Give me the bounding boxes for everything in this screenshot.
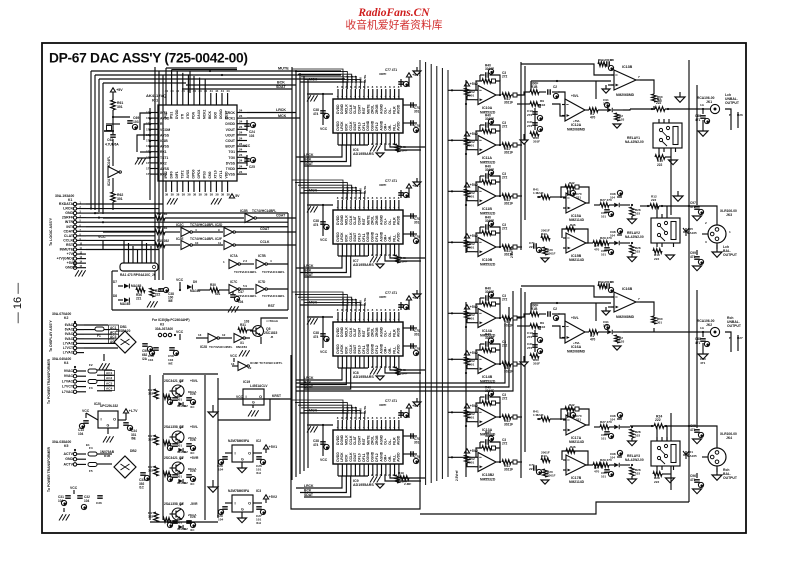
svg-text:AC1: AC1 — [106, 371, 112, 375]
svg-text:R40: R40 — [485, 216, 491, 220]
svg-text:222: 222 — [651, 198, 656, 202]
svg-text:20PF: 20PF — [400, 372, 408, 376]
svg-text:AVDD: AVDD — [397, 121, 401, 131]
svg-text:RA1 473 RPG4A10C_20: RA1 473 RPG4A10C_20 — [120, 273, 156, 277]
svg-text:AD1955ARS: AD1955ARS — [353, 483, 374, 487]
svg-text:103: 103 — [619, 118, 624, 122]
bus wires above U1 — [166, 68, 237, 93]
capacitor C69 — [112, 110, 139, 130]
svg-text:F3: F3 — [89, 386, 93, 390]
DAC IC6 body — [333, 99, 403, 133]
svg-text:MCK: MCK — [278, 114, 287, 118]
inverter IC7B — [234, 254, 288, 274]
resistor array RA1 — [120, 263, 158, 277]
base resistor Q2 — [148, 465, 158, 476]
svg-text:O: O — [248, 451, 251, 456]
svg-text:IC14B: IC14B — [482, 375, 493, 379]
op-amp IC14B — [475, 355, 496, 384]
svg-text:VCC: VCC — [70, 486, 78, 490]
svg-text:272: 272 — [527, 346, 532, 350]
svg-text:IC10A: IC10A — [482, 106, 493, 110]
connector K1 To LOGIC ASSY — [49, 202, 86, 270]
svg-text:VCC: VCC — [320, 350, 328, 354]
svg-text:L4931ACLV: L4931ACLV — [250, 384, 268, 388]
inverter IC2A — [107, 156, 121, 186]
svg-text:C62: C62 — [107, 138, 113, 142]
svg-text:+5V2: +5V2 — [269, 495, 278, 499]
svg-text:CDAT: CDAT — [276, 214, 286, 218]
svg-text:R49: R49 — [398, 471, 404, 475]
+5V arrow below U1 — [229, 194, 240, 198]
output network IC12A — [585, 98, 624, 128]
svg-text:OPD1: OPD1 — [197, 169, 201, 178]
svg-text:RadioFans.CN: RadioFans.CN — [357, 7, 430, 19]
gnd tri power 2 — [208, 440, 218, 492]
supply rail op-amp column Rch — [465, 302, 467, 477]
svg-text:300F: 300F — [531, 304, 538, 308]
resistor R1 222 at relay1 — [630, 98, 700, 112]
svg-text:DGND: DGND — [219, 109, 223, 119]
svg-text:R40: R40 — [485, 64, 491, 68]
svg-text:272: 272 — [502, 176, 508, 180]
control bus into DAC IC9 — [292, 400, 367, 420]
svg-text:382: 382 — [148, 469, 153, 473]
svg-text:MUTE: MUTE — [363, 75, 367, 83]
svg-text:DZ: DZ — [184, 481, 188, 485]
svg-text:L7VAC: L7VAC — [63, 351, 74, 355]
supply resistor at IC14B — [464, 351, 478, 369]
svg-text:38: 38 — [227, 193, 231, 197]
AC1-AC4 labels — [109, 325, 119, 344]
svg-text:NA-42W2-00: NA-42W2-00 — [625, 140, 644, 144]
svg-text:SDAT: SDAT — [276, 85, 286, 89]
svg-text:24: 24 — [239, 108, 243, 112]
svg-text:470: 470 — [590, 116, 596, 120]
relay RELAY4 Rch bal — [625, 437, 680, 470]
svg-text:9VAC: 9VAC — [64, 374, 74, 378]
capacitor C96 — [690, 473, 704, 494]
svg-text:LRCK: LRCK — [304, 153, 314, 157]
transistor Q3 — [164, 425, 198, 443]
resistor R25 at relay4 — [630, 415, 689, 442]
right inner vertical wire — [696, 85, 698, 423]
top-left bus verticals — [91, 67, 345, 280]
diode D8 — [113, 294, 131, 306]
svg-text:IC7B: IC7B — [258, 254, 266, 258]
svg-text:NM5532D: NM5532D — [480, 263, 496, 267]
svg-text:R9 392: R9 392 — [157, 226, 168, 230]
op-amp IC13B servo — [602, 65, 640, 97]
bypass caps right of DAC IC8 — [403, 325, 420, 355]
svg-text:101: 101 — [601, 215, 606, 219]
VCC at RA1 — [98, 235, 106, 250]
svg-text:OUTPUT: OUTPUT — [723, 476, 738, 480]
RA1 top wires — [124, 240, 151, 263]
svg-text:VDD: VDD — [225, 171, 229, 179]
servo integration rail Rch — [531, 302, 611, 321]
resistor R62 — [111, 178, 124, 210]
svg-text:470: 470 — [594, 470, 599, 474]
svg-text:DVDD: DVDD — [225, 122, 235, 126]
svg-text:CCLK: CCLK — [260, 240, 270, 244]
svg-text:+5VL: +5VL — [573, 341, 580, 345]
+5V supply at DAC IC6 — [379, 67, 421, 87]
svg-text:MA165: MA165 — [120, 302, 131, 306]
svg-text:AVSS: AVSS — [160, 133, 170, 137]
output resistor IC11B — [502, 194, 522, 206]
svg-text:221: 221 — [529, 245, 534, 249]
DAC IC9 top pins — [337, 416, 400, 430]
svg-text:TC74VHC14BFL: TC74VHC14BFL — [209, 345, 233, 349]
diode D5 MA165 — [683, 227, 697, 236]
svg-text:9VAC: 9VAC — [65, 337, 74, 341]
svg-text:471: 471 — [695, 341, 701, 345]
op-amp IC16B servo — [602, 287, 640, 319]
svg-text:BCK: BCK — [304, 489, 312, 493]
svg-text:VCC: VCC — [98, 235, 106, 239]
frame wires at JK1 — [725, 109, 743, 130]
svg-text:Q4: Q4 — [179, 502, 184, 506]
relay RELAY2 — [625, 214, 680, 247]
svg-text:272: 272 — [527, 113, 532, 117]
DAC IC7 designator — [353, 259, 374, 267]
op-amp IC17A — [533, 403, 589, 444]
divider network Q3 — [163, 438, 196, 455]
svg-text:IC12A: IC12A — [571, 123, 582, 127]
feedback network IC14B — [476, 333, 508, 366]
svg-text:LRCK: LRCK — [304, 484, 314, 488]
svg-text:G: G — [252, 401, 255, 405]
output resistor IC14B — [502, 362, 522, 374]
crystal X2 — [104, 124, 120, 131]
svg-text:AVSS: AVSS — [160, 145, 170, 149]
svg-text:24: 24 — [239, 164, 243, 168]
relay RELAY1 — [625, 119, 682, 152]
inverter IC28 — [196, 333, 233, 349]
svg-text:474: 474 — [313, 335, 319, 339]
svg-text:TC74VHC14BFL IC2D: TC74VHC14BFL IC2D — [190, 223, 223, 227]
svg-text:/1H: /1H — [256, 521, 262, 525]
VCC arrow mid — [176, 278, 184, 291]
servo output wire IC13B — [640, 80, 663, 110]
svg-text:R24: R24 — [656, 415, 662, 419]
op-amp IC13A — [475, 408, 496, 437]
output network Lch bal row 1 — [594, 228, 641, 261]
svg-text:44: 44 — [165, 89, 169, 93]
svg-text:C28: C28 — [190, 438, 196, 442]
svg-text:IC2: IC2 — [256, 439, 261, 443]
svg-text:AVDD: AVDD — [397, 104, 401, 114]
svg-text:R43: R43 — [541, 232, 547, 236]
output network Rch bal row 1 — [594, 450, 641, 483]
capacitor C33 — [139, 473, 150, 490]
svg-text:IC11B: IC11B — [482, 207, 492, 211]
svg-text:301: 301 — [117, 105, 123, 109]
svg-text:103: 103 — [619, 340, 624, 344]
svg-text:3021F: 3021F — [504, 202, 513, 206]
svg-text:103: 103 — [635, 434, 640, 438]
svg-text:VCC: VCC — [230, 354, 238, 358]
gnd tri above relay2 — [673, 191, 683, 201]
resistor R61 — [111, 100, 124, 110]
svg-text:TG1: TG1 — [228, 150, 235, 154]
IC U1 right pins — [237, 108, 247, 174]
svg-text:/6E: /6E — [131, 437, 136, 441]
svg-text:474: 474 — [313, 112, 319, 116]
fuses F4 F5 — [86, 443, 97, 473]
svg-text:G: G — [107, 424, 110, 428]
svg-text:5V: 5V — [235, 194, 240, 198]
svg-text:104: 104 — [610, 456, 615, 460]
svg-text:VCC: VCC — [236, 395, 244, 399]
svg-text:F1: F1 — [97, 334, 101, 338]
supply resistor at IC10A — [464, 82, 478, 100]
svg-text:TG0: TG0 — [228, 156, 235, 160]
svg-text:AVDD: AVDD — [397, 327, 401, 337]
svg-text:2001F: 2001F — [541, 451, 550, 455]
ground below DAC IC8 — [370, 368, 381, 374]
resistor R36 — [136, 288, 145, 301]
svg-text:TC74VHC14BFL: TC74VHC14BFL — [252, 209, 276, 213]
svg-text:R31: R31 — [240, 323, 246, 327]
resistor R37 — [150, 288, 161, 297]
svg-text:+5V2: +5V2 — [470, 234, 479, 238]
svg-text:38: 38 — [204, 193, 208, 197]
ground left of DAC IC7 — [307, 205, 319, 213]
svg-text:IC7A: IC7A — [230, 254, 238, 258]
DAC IC6 top pins — [337, 85, 400, 99]
svg-text:3040F: 3040F — [485, 290, 494, 294]
supply resistor at IC13B2 — [464, 449, 478, 467]
junction dot column at U1 left pins — [149, 108, 151, 200]
svg-text:3040F: 3040F — [485, 168, 494, 172]
svg-text:DP-67 DAC ASS'Y (725-0042-00): DP-67 DAC ASS'Y (725-0042-00) — [49, 51, 248, 66]
svg-text:R40: R40 — [485, 431, 491, 435]
svg-text:To DISPLAY ASS'Y: To DISPLAY ASS'Y — [49, 320, 53, 352]
MCK wire to DAC IC8 — [300, 301, 347, 313]
output wires DAC IC9 — [376, 475, 425, 488]
logic section enclosing wires — [95, 213, 288, 310]
diode D7 — [113, 280, 142, 288]
svg-text:VCOM: VCOM — [160, 128, 170, 132]
svg-text:38: 38 — [221, 193, 225, 197]
svg-text:+5V2: +5V2 — [470, 183, 479, 187]
svg-text:收音机爱好者资料库: 收音机爱好者资料库 — [345, 18, 442, 32]
svg-text:+7V: +7V — [67, 252, 74, 256]
svg-text:301: 301 — [177, 398, 182, 402]
ground K1 — [75, 262, 86, 277]
servo feedback verticals Lch — [521, 62, 525, 250]
svg-text:10: 10 — [195, 241, 199, 245]
svg-text:UOUT: UOUT — [225, 133, 236, 137]
svg-text:R46: R46 — [570, 445, 576, 449]
LRCK BCK SDAT wires DAC IC6 — [296, 145, 351, 166]
svg-text:I: I — [101, 417, 102, 422]
op-amp IC11B — [475, 187, 496, 216]
svg-text:C25: C25 — [249, 165, 255, 169]
ground left of DAC IC6 — [307, 94, 319, 102]
svg-text:24: 24 — [239, 153, 243, 157]
svg-text:30A-037A00: 30A-037A00 — [155, 327, 173, 331]
svg-text:XTI: XTI — [181, 114, 185, 119]
svg-text:JK4: JK4 — [726, 436, 732, 440]
svg-text:L7VCT: L7VCT — [63, 346, 73, 350]
svg-text:R41: R41 — [533, 410, 539, 414]
svg-text:OUTPUT: OUTPUT — [727, 324, 742, 328]
svg-text:+5V: +5V — [67, 261, 74, 265]
svg-text:TC74VHC14BFL: TC74VHC14BFL — [262, 270, 285, 274]
bypass caps right of DAC IC6 — [403, 102, 420, 132]
svg-text:GND: GND — [65, 266, 73, 270]
diode D1 MA165 — [683, 450, 697, 459]
svg-text:R40: R40 — [485, 165, 491, 169]
svg-text:AVSS: AVSS — [186, 169, 190, 179]
transistor Q4 — [164, 502, 198, 520]
base resistor Q1 — [148, 388, 158, 399]
IC U1 AK4112VQ body — [158, 105, 237, 181]
svg-text:OPD0: OPD0 — [192, 169, 196, 178]
svg-text:MUTE: MUTE — [278, 67, 289, 71]
wire relay3 line to JK4 — [688, 425, 717, 440]
svg-text:AD1955ARS: AD1955ARS — [353, 263, 374, 267]
svg-text:272: 272 — [502, 442, 508, 446]
2.5Vref vertical label mid — [510, 247, 514, 258]
op-amp IC13B2 — [475, 453, 496, 482]
wires below relay3 — [657, 413, 671, 490]
svg-text:AVDD: AVDD — [397, 344, 401, 354]
svg-text:+L7V: +L7V — [129, 409, 138, 413]
capacitor C34 — [123, 423, 137, 441]
inverter IC2E — [176, 237, 223, 250]
svg-text:INTI: INTI — [66, 225, 73, 229]
svg-text:NM2114D: NM2114D — [569, 258, 585, 262]
svg-text:K4: K4 — [64, 361, 68, 365]
svg-text:3040F: 3040F — [485, 219, 494, 223]
svg-text:2.5Vref: 2.5Vref — [455, 470, 459, 481]
svg-text:222: 222 — [656, 101, 662, 105]
svg-text:R43: R43 — [541, 454, 547, 458]
svg-text:/1H: /1H — [256, 471, 262, 475]
svg-text:+5VL: +5VL — [573, 119, 580, 123]
svg-text:272: 272 — [502, 75, 508, 79]
main vertical bus — [292, 67, 308, 480]
svg-text:TC74VHC14BFL: TC74VHC14BFL — [262, 294, 285, 298]
svg-text:R42: R42 — [569, 181, 575, 185]
svg-text:CDAT: CDAT — [260, 227, 270, 231]
svg-text:+5V1: +5V1 — [269, 445, 278, 449]
resistor R9 — [103, 226, 180, 234]
svg-text:IC7C: IC7C — [230, 280, 238, 284]
inverter IC2C — [176, 223, 223, 237]
DAC IC8 bottom pins — [338, 356, 399, 369]
svg-text:NM5532D: NM5532D — [480, 478, 496, 482]
svg-text:SDAT: SDAT — [304, 273, 314, 277]
capacitor C36b — [96, 496, 103, 505]
fuse F1 — [95, 327, 104, 338]
svg-text:L7VAC: L7VAC — [62, 390, 74, 394]
svg-text:C8: C8 — [610, 280, 614, 284]
caps at K3 — [148, 348, 179, 366]
svg-text:MUTE: MUTE — [363, 406, 367, 414]
svg-text:2001F: 2001F — [547, 252, 556, 256]
feedback network IC11A — [476, 114, 508, 147]
servo input network IC13B — [521, 58, 614, 75]
regulator IC2 NJM78M05FA — [217, 439, 277, 475]
IC U1 top pins — [165, 89, 230, 105]
svg-text:VCC: VCC — [320, 238, 328, 242]
svg-text:D7: D7 — [113, 280, 117, 284]
svg-text:301: 301 — [177, 444, 182, 448]
svg-text:R1: R1 — [657, 98, 661, 102]
bottom step wire — [420, 502, 689, 514]
svg-text:IC13B: IC13B — [622, 65, 633, 69]
wire power to mid — [218, 399, 291, 420]
svg-text:272: 272 — [502, 397, 508, 401]
feedback network IC10A — [476, 64, 508, 97]
svg-text:+5V2: +5V2 — [470, 404, 479, 408]
svg-text:I: I — [235, 501, 236, 506]
svg-text:-5VR: -5VR — [190, 502, 198, 506]
DAC IC6 designator — [353, 148, 374, 156]
transistor Q1 — [164, 379, 198, 397]
svg-text:24: 24 — [239, 114, 243, 118]
svg-text:470: 470 — [590, 338, 596, 342]
ground below U1 right — [211, 198, 222, 204]
transistor Q5 — [250, 319, 279, 339]
resistor R49 bottom — [398, 471, 411, 486]
svg-text:IPS1: IPS1 — [170, 112, 174, 119]
svg-text:RXDATA: RXDATA — [59, 202, 74, 206]
resistor R19 under relay1 — [655, 155, 678, 167]
svg-text:IC13B2: IC13B2 — [482, 473, 494, 477]
DAC IC9 body — [333, 430, 403, 464]
svg-text:BOUT: BOUT — [225, 145, 236, 149]
svg-text:G: G — [241, 508, 244, 512]
control bus into DAC IC6 — [292, 69, 367, 89]
DAC IC6 bottom pins — [338, 133, 399, 146]
ground IC19 — [248, 405, 259, 417]
svg-text:K5: K5 — [64, 444, 68, 448]
svg-text:TST2: TST2 — [181, 170, 185, 178]
svg-text:TC74VHC14BFL: TC74VHC14BFL — [234, 294, 257, 298]
svg-text:301F: 301F — [533, 362, 540, 366]
svg-text:GND: GND — [65, 457, 73, 461]
svg-text:C8: C8 — [610, 58, 614, 62]
svg-text:474: 474 — [313, 223, 319, 227]
svg-text:222: 222 — [654, 480, 659, 484]
svg-text:3021F: 3021F — [504, 423, 513, 427]
svg-text:44: 44 — [176, 89, 180, 93]
op-amp IC11A — [475, 136, 496, 165]
svg-text:NM2068MD: NM2068MD — [567, 128, 586, 132]
svg-text:3040F: 3040F — [485, 117, 494, 121]
svg-text:301: 301 — [177, 475, 182, 479]
svg-text:13: 13 — [231, 362, 235, 366]
regulator IC19 — [236, 380, 281, 405]
JK2 right wires — [725, 332, 743, 352]
capacitor C36 at DAC IC8 — [309, 316, 333, 354]
VCC at IC20 — [82, 409, 98, 420]
svg-text:3040F: 3040F — [485, 67, 494, 71]
svg-text:104: 104 — [603, 324, 608, 328]
svg-text:MUTE: MUTE — [363, 186, 367, 194]
inverter IC28b — [234, 334, 250, 343]
connector K4 To POWER TRANSFORMER — [47, 358, 86, 404]
svg-text:I: I — [235, 451, 236, 456]
ground Q5 — [239, 350, 250, 356]
svg-text:CDAT: CDAT — [64, 229, 74, 233]
Q5 collector wire — [261, 318, 288, 344]
